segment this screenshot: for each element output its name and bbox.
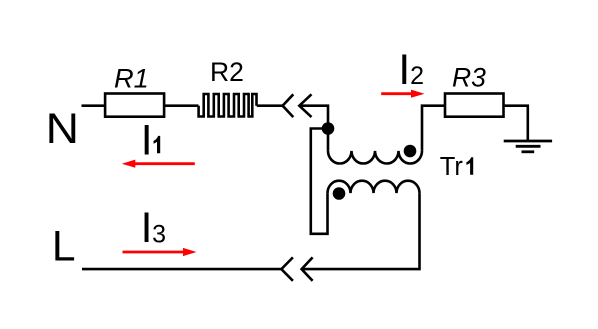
current arrow I2 <box>381 90 424 98</box>
connector chevron top-left <box>283 94 294 117</box>
svg-text:N: N <box>46 106 79 153</box>
svg-text:Tr: Tr <box>440 153 464 181</box>
label R2 <box>210 57 244 87</box>
polarity dot secondary <box>333 187 346 200</box>
wire transformer primary to R3 <box>422 106 445 151</box>
svg-text:I: I <box>141 205 153 252</box>
current arrow I1 <box>122 160 195 168</box>
label I1 <box>141 117 161 164</box>
node L label <box>52 224 76 271</box>
node N label <box>46 106 79 153</box>
label R1 <box>114 63 149 94</box>
wire branch from junction down to secondary (U path) <box>311 129 328 234</box>
transformer Tr1 primary winding <box>328 151 422 164</box>
transformer Tr1 secondary winding <box>328 181 420 193</box>
junction dot primary node <box>322 122 335 135</box>
connector chevron top-right <box>299 94 311 117</box>
svg-text:2: 2 <box>410 62 424 90</box>
resistor R1 <box>105 94 164 117</box>
polarity dot primary <box>404 145 417 158</box>
label I2 <box>398 47 424 94</box>
wire connector to transformer top <box>299 106 328 151</box>
svg-text:L: L <box>52 224 76 271</box>
ground symbol <box>504 141 552 152</box>
resistor R2 (square-wave element) <box>199 94 257 117</box>
label Tr1 <box>440 153 473 181</box>
wire R2 to connector <box>257 104 283 107</box>
svg-text:I: I <box>398 47 410 94</box>
wire from N to R1 <box>82 104 106 107</box>
wire R3 to ground <box>504 106 528 141</box>
svg-text:R2: R2 <box>210 57 244 87</box>
svg-text:I: I <box>141 117 153 164</box>
wire from L to connector <box>82 268 281 271</box>
svg-text:R1: R1 <box>114 63 149 94</box>
svg-text:R3: R3 <box>452 63 486 93</box>
current arrow I3 <box>123 248 197 256</box>
label I3 <box>141 205 166 252</box>
wire R1 to R2 <box>164 104 198 107</box>
resistor R3 <box>445 94 504 117</box>
connector chevron bottom-left <box>281 257 293 280</box>
connector chevron bottom-right <box>302 257 313 280</box>
label R3 <box>452 63 486 93</box>
svg-text:3: 3 <box>152 221 166 249</box>
wire connector to transformer secondary <box>302 193 420 269</box>
